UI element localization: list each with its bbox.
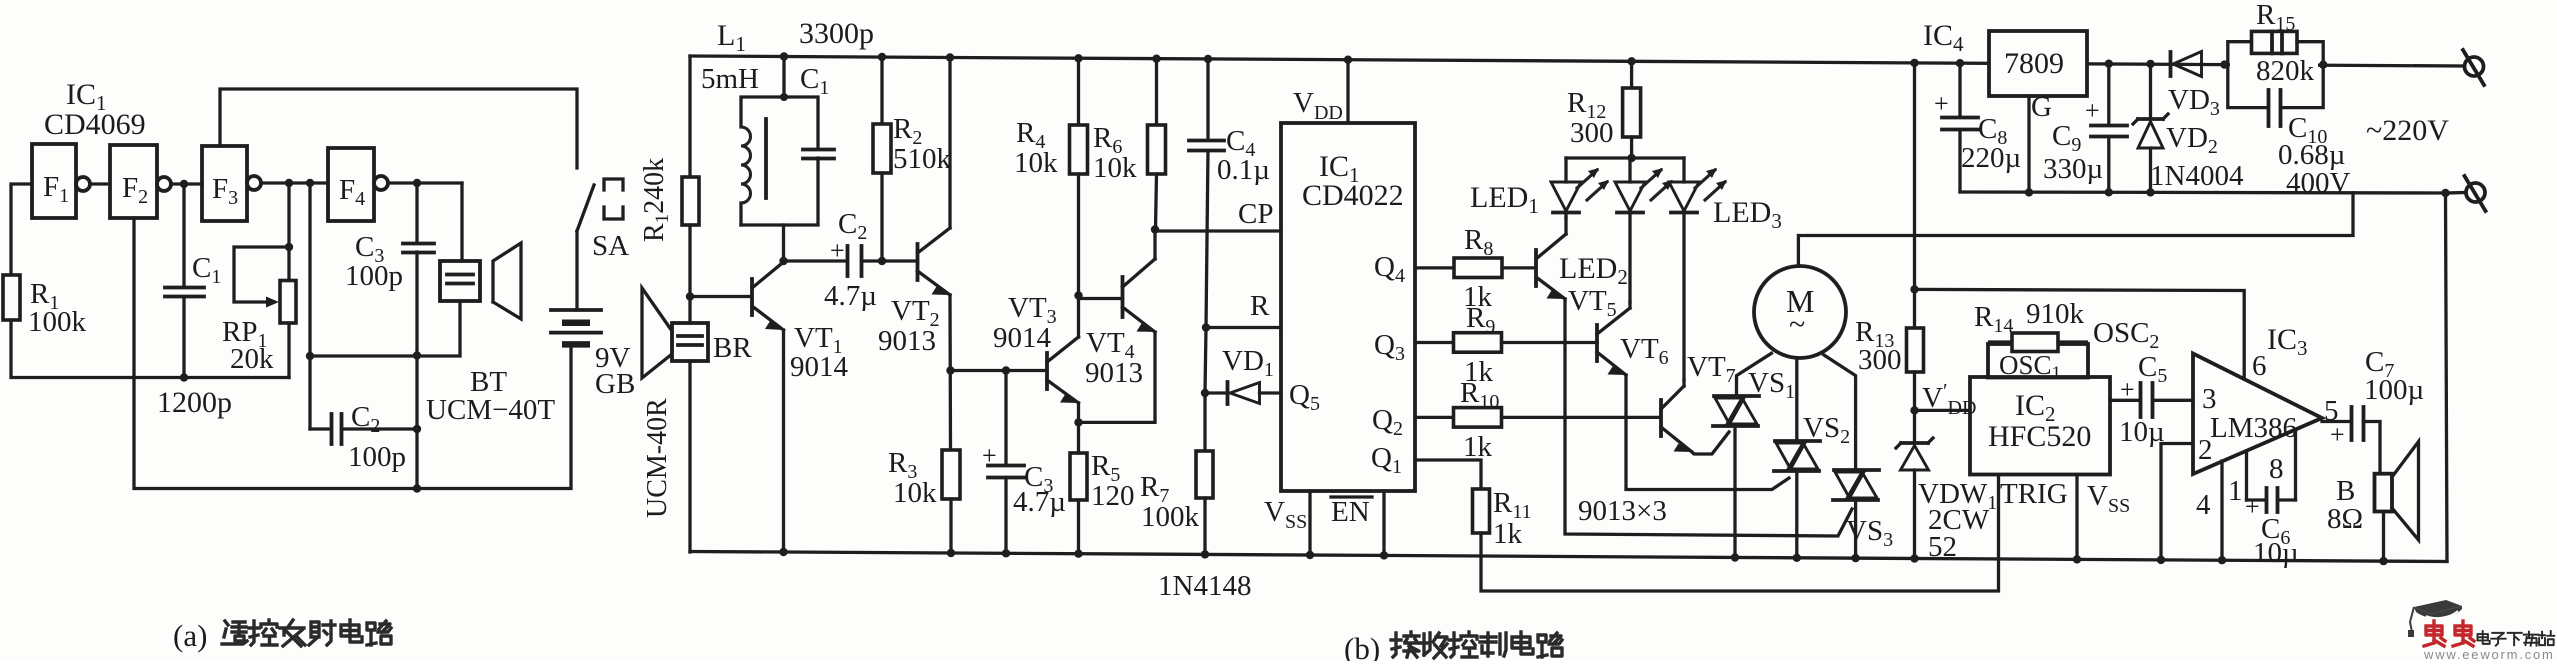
capacitor C5 10u (2110, 399, 2141, 402)
svg-text:UCM-40R: UCM-40R (642, 398, 673, 518)
potentiometer RP1 20k wiper loop wire (234, 247, 289, 302)
potentiometer RP1 body (280, 281, 296, 324)
resistor R11 1k (1473, 489, 1490, 533)
wire VT5 emitter down and right to VS3 gate (1565, 299, 1852, 536)
node C1 tap (180, 180, 188, 188)
node R pin (1202, 323, 1210, 331)
thyristor VS2 (1775, 439, 1820, 443)
node tank top (780, 52, 788, 60)
wire VT4 collector up to CP node (1153, 230, 1156, 260)
resistor R8 1k (1454, 258, 1502, 278)
svg-text:220µ: 220µ (1961, 142, 2021, 174)
svg-text:VT7: VT7 (1687, 351, 1736, 387)
svg-text:VDD: VDD (1293, 87, 1343, 124)
svg-text:~220V: ~220V (2366, 114, 2449, 147)
svg-text:(b): (b) (1344, 631, 1380, 661)
svg-text:CD4022: CD4022 (1302, 179, 1404, 212)
regulator U 7809 (1989, 31, 2087, 96)
transistor VT5 (1534, 250, 1538, 286)
zener diode VD2 1N4004 (2149, 64, 2152, 119)
wire 9V tap down left branch (1913, 63, 1916, 328)
wire VT7 emitter to VS1 gate (1692, 432, 1729, 454)
node OSC feed (1910, 285, 1918, 293)
svg-text:~: ~ (1789, 308, 1805, 341)
wire C2 to VT2 base (862, 259, 918, 262)
supply return rail (1960, 192, 2446, 193)
node VT1 base (686, 292, 694, 300)
pin 4 wire (2220, 461, 2223, 560)
svg-text:6: 6 (2252, 350, 2267, 382)
node C3 top (1002, 366, 1010, 374)
pin EN wire with overline label (1382, 491, 1385, 555)
pin VDD (1346, 60, 1349, 123)
wire pin2 to ground (2161, 444, 2193, 560)
svg-text:8Ω: 8Ω (2327, 503, 2363, 535)
transistor VT6 (1595, 325, 1599, 361)
svg-text:400V: 400V (2286, 167, 2351, 199)
wire motor top (1798, 193, 2353, 266)
svg-text:9013: 9013 (1085, 357, 1143, 389)
pin 5 output wire (2322, 420, 2351, 423)
svg-text:TRIG: TRIG (2000, 478, 2068, 510)
svg-text:GB: GB (595, 368, 635, 400)
node C3 bottom (413, 351, 421, 359)
node bottom rail (413, 484, 421, 492)
node BT bottom line left (306, 352, 314, 360)
wire VT2 collector to rail (948, 58, 951, 229)
svg-text:C2: C2 (351, 401, 380, 437)
svg-text:+: + (982, 441, 997, 470)
wire OSC feed to LM386 pin6 (1915, 289, 2245, 379)
svg-text:300: 300 (1570, 117, 1614, 149)
pin VSS wire (1308, 491, 1311, 555)
pin 1 stub (2245, 451, 2248, 500)
capacitor C4 0.1u (1206, 59, 1209, 140)
transistor VT4 9013 (1121, 277, 1125, 317)
svg-text:+: + (830, 236, 845, 265)
svg-text:C5: C5 (2138, 351, 2167, 387)
svg-text:0.1µ: 0.1µ (1217, 154, 1270, 186)
capacitor C3 100p plates (403, 242, 434, 246)
svg-text:9013: 9013 (878, 325, 936, 357)
wire F2 out to F3 with node (171, 182, 202, 185)
wire Q3 to R9 (1415, 341, 1454, 344)
svg-text:VT6: VT6 (1620, 333, 1669, 369)
svg-text:Q1: Q1 (1371, 442, 1402, 478)
wire VT2 emitter down (948, 295, 952, 450)
wire Q4 to R8 (1415, 266, 1454, 269)
svg-text:LED3: LED3 (1713, 196, 1782, 233)
svg-text:52: 52 (1928, 531, 1957, 563)
wire VT3 collector up to R4 node (1077, 296, 1080, 338)
node RP1 wiper loop (285, 243, 293, 251)
svg-text:9013×3: 9013×3 (1578, 495, 1667, 527)
svg-text:100µ: 100µ (2364, 374, 2424, 406)
wire motor to VS1 (1737, 353, 1772, 395)
svg-text:LED2: LED2 (1559, 252, 1628, 289)
svg-text:1: 1 (2228, 475, 2243, 507)
left rail wire (688, 56, 691, 177)
wire motor to VS2 (1795, 358, 1798, 440)
svg-text:F4: F4 (339, 174, 365, 210)
pin 8 stub (2294, 430, 2297, 500)
svg-text:UCM−40T: UCM−40T (426, 394, 555, 426)
resistor R1 240k (682, 177, 699, 225)
svg-text:F3: F3 (212, 173, 238, 209)
svg-text:Q2: Q2 (1372, 404, 1403, 440)
svg-text:9014: 9014 (790, 351, 849, 383)
svg-text:Q3: Q3 (1374, 329, 1405, 365)
svg-text:3: 3 (2202, 383, 2217, 415)
wire BT bottom line (310, 302, 460, 356)
svg-text:4: 4 (2196, 489, 2211, 521)
resistor R1 100k (3, 275, 20, 320)
inverter F2 (110, 145, 157, 218)
capacitor C10 0.68u 400V (2228, 65, 2268, 108)
wire R1 bottom to 1200p line (11, 320, 289, 378)
node bottom rail R7 (1201, 550, 1209, 558)
capacitor C7 100u (2350, 407, 2354, 440)
LED3 (1682, 158, 1685, 182)
oscillator OSC1 box (1988, 344, 2088, 378)
node C1 bottom (180, 373, 188, 381)
svg-text:100k: 100k (28, 306, 87, 338)
thyristor VS3 (1834, 468, 1879, 472)
transistor VT1 9014 (750, 279, 754, 315)
node bottom rail VT1 emitter (779, 548, 787, 556)
svg-text:HFC520: HFC520 (1988, 420, 2091, 453)
svg-text:1k: 1k (1463, 431, 1493, 463)
resistor R5 120 (1070, 453, 1087, 500)
svg-text:VS2: VS2 (1803, 412, 1850, 448)
svg-text:20k: 20k (230, 343, 274, 375)
svg-text:120: 120 (1091, 480, 1135, 512)
resistor R14 910k (1990, 342, 2013, 344)
svg-text:C1: C1 (800, 63, 829, 99)
capacitor C2 4.7u wire (784, 259, 848, 262)
svg-text:100p: 100p (345, 260, 403, 292)
svg-text:510k: 510k (893, 143, 952, 175)
transistor VT7 (1659, 400, 1663, 436)
inductor L1 5mH coil (741, 127, 751, 203)
svg-text:(a): (a) (173, 618, 207, 653)
node F3out B (306, 179, 314, 187)
svg-text:4.7µ: 4.7µ (824, 280, 877, 312)
svg-text:VSS: VSS (1264, 496, 1307, 533)
wire BR bottom to ground (688, 361, 691, 552)
svg-text:+: + (1934, 89, 1949, 118)
wire R11 bottom to trigger line (1481, 475, 1999, 591)
wire F3out B down to C2/BT bottom line (308, 183, 311, 429)
resistor R7 100k (1203, 393, 1206, 451)
svg-text:VD1: VD1 (1222, 345, 1274, 381)
wiper arrowhead (266, 297, 279, 308)
svg-text:VS1: VS1 (1748, 367, 1795, 403)
svg-text:IC3: IC3 (2267, 323, 2308, 360)
svg-text:10µ: 10µ (2119, 416, 2165, 448)
transistor VT3 9014 (1045, 353, 1049, 389)
resistor R12 300 (1630, 61, 1633, 88)
svg-text:910k: 910k (2026, 298, 2085, 330)
wire VT3 emitter down to R5 node (1077, 403, 1080, 422)
node bottom rail R3 (947, 549, 955, 557)
svg-text:LED1: LED1 (1470, 181, 1539, 218)
capacitor C9 330u (2107, 64, 2110, 125)
wire tank top to rail (782, 57, 785, 98)
wire F4 output to BT (388, 181, 462, 184)
LED1 (1564, 158, 1567, 182)
svg-text:1k: 1k (1493, 518, 1523, 550)
BR horn cone (642, 288, 672, 378)
node R5 top (1074, 418, 1082, 426)
wire motor to VS3 (1824, 355, 1856, 469)
wire right rail to lower terminal (2446, 193, 2448, 562)
svg-text:1200p: 1200p (157, 386, 232, 419)
svg-text:C9: C9 (2052, 120, 2081, 156)
svg-text:+: + (2330, 420, 2345, 449)
bottom ground rail (690, 552, 2447, 562)
wire R10 to VT7 base (1502, 416, 1662, 419)
wire VT6 emitter down and right to VS2 gate (1626, 375, 1789, 490)
svg-text:VD2: VD2 (2166, 122, 2218, 158)
capacitor C6 10u between pins 1 and 8 (2247, 498, 2267, 501)
caption (b) receiver control circuit (1344, 631, 1562, 666)
svg-text:C1: C1 (192, 252, 221, 288)
svg-text:OSC1: OSC1 (1999, 350, 2061, 384)
zener diode VDW1 2CW52 (1913, 410, 1916, 443)
svg-text:5mH: 5mH (701, 63, 759, 95)
svg-text:7809: 7809 (2004, 47, 2064, 80)
node R15 left (2220, 60, 2228, 68)
node VDD' (1910, 406, 1918, 414)
svg-text:R: R (1250, 290, 1270, 322)
transistor VT2 9013 (916, 244, 920, 280)
capacitor C2 100p plates (330, 414, 334, 444)
wire F3 out to F4 (261, 181, 328, 184)
watermark logo graduation cap (2408, 600, 2462, 637)
svg-text:R15: R15 (2256, 0, 2295, 35)
svg-text:4.7µ: 4.7µ (1013, 486, 1066, 518)
svg-text:+: + (2085, 96, 2100, 125)
battery GB 9V (551, 308, 601, 312)
svg-text:1N4148: 1N4148 (1158, 570, 1251, 602)
wire C7 to speaker (2364, 422, 2381, 474)
resistor R4 10k (1077, 58, 1080, 125)
node C2 right (413, 425, 421, 433)
svg-text:Q4: Q4 (1374, 251, 1405, 287)
wire F3 top feedback to SA (220, 89, 577, 168)
svg-text:100p: 100p (348, 441, 406, 473)
wire RP1 bottom to 1200p line (287, 323, 290, 378)
svg-text:L1: L1 (717, 19, 746, 56)
inductor core bar (764, 119, 768, 198)
wire battery bottom to ground line (134, 218, 571, 489)
svg-text:EN: EN (1331, 496, 1370, 528)
BT horn cone (493, 243, 521, 319)
inverter F3 (202, 146, 247, 221)
svg-text:10k: 10k (1093, 152, 1137, 184)
node R4/VT4 base (1074, 291, 1082, 299)
LC tank frame (739, 203, 742, 225)
inverter F4 (328, 148, 374, 221)
watermark text dianzixiazaizhan (2477, 631, 2554, 646)
wire SA to battery (575, 231, 578, 310)
svg-text:10k: 10k (893, 477, 937, 509)
svg-text:10k: 10k (1014, 147, 1058, 179)
wire R8 to VT5 base (1502, 266, 1536, 269)
svg-text:1N4004: 1N4004 (2150, 160, 2244, 192)
svg-text:IC4: IC4 (1923, 19, 1964, 56)
wire R pin to IC1 (1206, 326, 1281, 329)
node VD1 (1201, 389, 1209, 397)
resistor R9 1k (1454, 333, 1502, 353)
svg-text:www.eeworm.com: www.eeworm.com (2423, 647, 2555, 661)
wire R1 to BR (688, 225, 691, 323)
svg-text:+: + (2120, 375, 2135, 404)
node VT3 base line (946, 366, 954, 374)
resistor R10 1k (1454, 408, 1502, 428)
IC2 HFC520 box (1970, 377, 2110, 475)
wire VT4 base (1079, 297, 1123, 300)
capacitor C1 3300p plates (803, 148, 834, 152)
capacitor C1 1200p plates (165, 286, 204, 290)
node F4out (413, 179, 421, 187)
svg-text:2: 2 (2198, 434, 2213, 466)
wire CP line to IC1 (1155, 229, 1281, 232)
capacitor C2 4.7u plates (846, 246, 850, 276)
svg-text:VT5: VT5 (1568, 285, 1617, 321)
svg-text:VS3: VS3 (1846, 515, 1893, 551)
svg-text:BR: BR (713, 332, 752, 364)
LED anode bus (1566, 156, 1684, 159)
svg-text:3300p: 3300p (799, 17, 874, 50)
inverter F1 (32, 144, 76, 218)
watermark text chong chong (red) (2424, 621, 2474, 646)
wire C1 vertical (182, 184, 185, 287)
top supply rail (690, 56, 2464, 66)
svg-text:820k: 820k (2256, 55, 2315, 87)
diode VD3 (2169, 52, 2173, 76)
wire lower terminal (2446, 191, 2467, 195)
svg-text:VSS: VSS (2087, 480, 2130, 517)
node R2 bottom (878, 257, 886, 265)
svg-text:CP: CP (1238, 198, 1273, 230)
wire C3 node down to C2 right (415, 356, 418, 489)
svg-text:OSC2: OSC2 (2093, 317, 2159, 353)
wire VT4 emitter down and left to R5 (1079, 332, 1156, 422)
node C2 branch (779, 257, 787, 265)
mains terminal upper (2465, 57, 2484, 76)
capacitor C2 100p left wire (310, 427, 331, 430)
svg-text:+: + (2245, 492, 2260, 521)
resistor R15 820k frame (2225, 42, 2252, 65)
resistor R6 10k (1155, 59, 1158, 125)
LED2 (1628, 158, 1631, 182)
svg-text:9014: 9014 (993, 322, 1052, 354)
mains terminal lower (2466, 183, 2485, 202)
op-amp IC3 LM386 triangle (2193, 354, 2322, 475)
svg-text:R14: R14 (1974, 301, 2013, 337)
svg-text:G: G (2031, 91, 2052, 123)
node bottom rail C3 (1002, 549, 1010, 557)
capacitor C8 220u (1958, 63, 1961, 117)
resistor R13 300 (1907, 328, 1924, 372)
wire VT1 emitter to ground (782, 330, 785, 553)
wire Q2 to R10 (1415, 416, 1454, 419)
op-amp/IC box IC1 CD4022 (1281, 123, 1415, 491)
wire VT1 collector up to tank (782, 225, 785, 262)
svg-text:R8: R8 (1464, 224, 1493, 260)
capacitor C3 4.7u electrolytic (1004, 371, 1007, 466)
svg-text:R1240k: R1240k (639, 158, 673, 242)
switch SA (577, 185, 594, 231)
wire F3out down to RP1 (287, 183, 290, 280)
svg-text:100k: 100k (1141, 501, 1200, 533)
svg-text:330µ: 330µ (2043, 153, 2103, 185)
wire C4 bottom down through R node to VD1 node (1206, 151, 1208, 328)
svg-text:8: 8 (2269, 453, 2284, 485)
node F3out A (285, 179, 293, 187)
caption (a) transmitter circuit (173, 618, 391, 653)
svg-text:VD3: VD3 (2168, 84, 2220, 120)
pin G wire (2027, 96, 2030, 192)
resistor R2 510k (880, 57, 883, 124)
thyristor VS1 (1714, 394, 1759, 398)
svg-text:C2: C2 (838, 208, 867, 244)
svg-text:LM386: LM386 (2210, 412, 2297, 444)
wire F1 input left (11, 184, 32, 275)
capacitor C3 100p vertical wire (415, 183, 418, 243)
node bottom rail R5 (1074, 550, 1082, 558)
wire IC2 VSS to ground (2075, 475, 2078, 560)
resistor R3 10k (942, 450, 960, 499)
svg-text:10µ: 10µ (2253, 537, 2299, 569)
wire R9 to VT6 base (1502, 341, 1598, 344)
svg-text:Q5: Q5 (1289, 379, 1320, 415)
wire VT1 base (690, 295, 752, 298)
wire Q1 down through R11 (1415, 460, 1481, 489)
wire F1 out to F2 (90, 182, 110, 185)
svg-text:SA: SA (592, 230, 629, 262)
receiver BR UCM-40R disc (672, 323, 708, 361)
svg-text:F2: F2 (122, 172, 148, 208)
svg-text:F1: F1 (43, 171, 69, 207)
diode VD1 1N4148 (1205, 391, 1228, 394)
svg-text:300: 300 (1858, 344, 1902, 376)
gap cover for series network (2230, 58, 2318, 71)
wire VT3 base line (951, 369, 1048, 372)
svg-text:CD4069: CD4069 (44, 108, 146, 141)
wire VDD' to IC2 (1915, 409, 1971, 412)
node CP (1151, 225, 1159, 233)
speaker B 8ohm (2375, 474, 2393, 512)
motor M (1754, 266, 1846, 358)
transducer BT UCM-40T disc (460, 183, 463, 261)
